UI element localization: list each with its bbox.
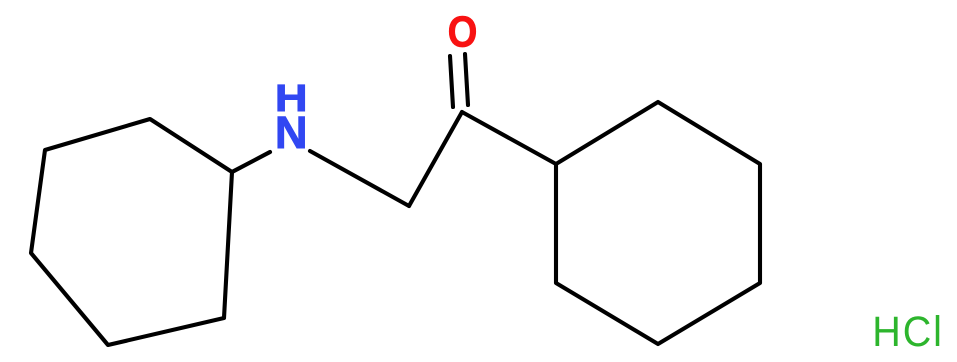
left cyclohexane ring [31,119,232,345]
carbonyl C=O double bond line 2 [465,54,468,105]
right cyclohexane ring [556,102,760,344]
svg-text:HCl: HCl [872,307,944,355]
carbonyl C=O double bond line 1 [450,56,453,107]
bond carbonyl C to right ring [462,112,556,164]
svg-text:N: N [275,107,308,158]
bond left ring to N [232,152,270,172]
bond N to CH2 [310,151,409,206]
svg-text:O: O [448,7,478,56]
bond CH2 to carbonyl C [409,112,462,206]
